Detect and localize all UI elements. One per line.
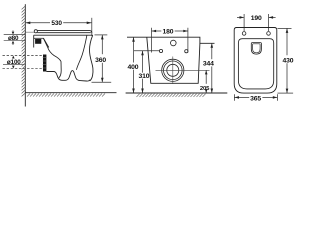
dimension 310 [142, 51, 144, 73]
svg-text:430: 430 [282, 57, 293, 64]
drain centerlines [156, 69, 210, 71]
floor hatch middle [137, 94, 206, 97]
svg-text:ø80: ø80 [8, 35, 19, 42]
190 extension lines [243, 21, 245, 31]
dimension 400 [133, 37, 135, 62]
body outer [234, 28, 277, 94]
dimension 205 [205, 70, 207, 84]
mounting hole left [159, 49, 162, 52]
drain connector flange [43, 55, 46, 72]
dimension 530 [26, 18, 92, 36]
svg-text:530: 530 [51, 20, 62, 27]
bowl back S-bend [44, 38, 62, 77]
svg-text:190: 190 [251, 15, 262, 22]
floor hatch [27, 94, 105, 97]
dimension o80 [12, 30, 14, 32]
wall [24, 4, 26, 106]
seat hinge bar [26, 31, 35, 33]
svg-text:ø100: ø100 [7, 59, 21, 66]
svg-text:205: 205 [200, 86, 210, 92]
flush shield inner [253, 44, 261, 53]
dimension 344 [211, 43, 213, 59]
svg-text:360: 360 [95, 57, 106, 64]
fixture outline [127, 37, 215, 43]
svg-text:180: 180 [163, 28, 174, 35]
bowl inner front line [76, 35, 87, 70]
inlet fitting [33, 35, 35, 47]
svg-text:344: 344 [203, 61, 214, 68]
body inner seat [238, 39, 273, 89]
seat hinge circle [34, 30, 37, 33]
floor line middle [126, 92, 228, 94]
dimension 365 [233, 94, 235, 101]
dimension 360 [95, 34, 108, 36]
dimension 430 [278, 27, 292, 29]
inlet pipe stub behind wall [4, 34, 26, 36]
dimension 180 [151, 28, 153, 53]
bowl underside with trap dip [46, 71, 89, 81]
drain pipe dashed [3, 54, 44, 56]
seat / lid [37, 31, 91, 34]
drain circles [162, 59, 184, 81]
svg-text:400: 400 [128, 64, 139, 71]
top hinge hole right [267, 32, 271, 36]
dimension 190 [243, 14, 245, 21]
flush shield outer [251, 43, 261, 55]
mounting hole right [185, 50, 188, 53]
bowl front face [90, 35, 94, 81]
ceramic rim top [34, 34, 93, 36]
top hinge hole left [242, 32, 246, 36]
water inlet circle [171, 40, 177, 46]
wall hatch [22, 6, 26, 96]
dimension o100 [12, 56, 15, 59]
hole level tick [134, 50, 160, 52]
svg-text:310: 310 [139, 73, 150, 80]
svg-text:365: 365 [250, 96, 261, 103]
floor line [25, 92, 116, 94]
